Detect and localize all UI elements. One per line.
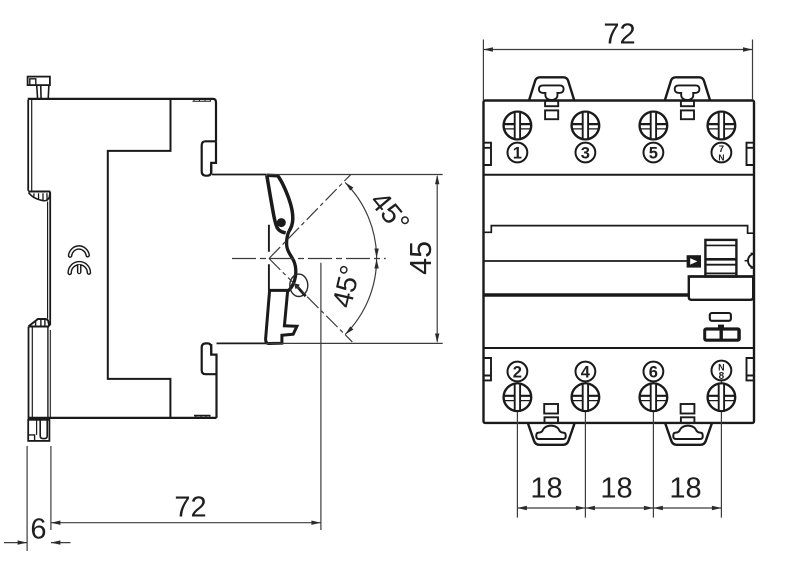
arrowheads 18 at 653 — [644, 506, 654, 510]
svg-text:72: 72 — [174, 492, 206, 524]
pole number 6 — [644, 362, 664, 382]
centerline horizontal — [232, 258, 386, 260]
extension line right of 6-dim / left of 72-dim — [50, 446, 52, 530]
svg-text:N: N — [718, 152, 724, 162]
centerline diagonal upper — [269, 175, 351, 259]
svg-text:45: 45 — [404, 241, 438, 275]
upper-left edge (double line) — [27, 100, 29, 191]
bottom mounting tab right — [665, 424, 712, 445]
screw terminal 1 — [504, 112, 532, 140]
side tab bottom-right — [747, 358, 755, 380]
arrowhead upper arc top — [344, 181, 354, 191]
svg-text:72: 72 — [603, 18, 635, 50]
arrowheads 18 at 517 — [517, 506, 527, 510]
top DIN-clip tab — [28, 77, 50, 99]
pole number 3 — [576, 143, 596, 163]
extension line: top shelf / 45-dim top — [212, 174, 266, 176]
pole number 5 — [644, 143, 664, 163]
mid panel line to arrow box — [484, 260, 687, 262]
lock notch on right edge — [748, 254, 754, 268]
bottom tab slot right (hat) — [673, 426, 702, 439]
dim line 72 — [51, 522, 321, 524]
svg-text:8: 8 — [719, 371, 725, 382]
divider above bottom terminals — [484, 347, 755, 349]
DIN claw hatch step — [28, 192, 50, 201]
arrowhead 45 bottom — [435, 334, 439, 344]
extension line 72-top right — [752, 40, 754, 101]
dim line 72 top — [483, 49, 752, 51]
screw terminal 4 — [572, 383, 600, 411]
extension line: bottom shelf / 45-dim bottom — [217, 342, 267, 344]
dropper line from screw 2 — [516, 381, 518, 517]
dimension dropper lines from bottom screws — [517, 362, 721, 518]
stepped panel line — [484, 226, 755, 234]
top-right edge with notch — [211, 141, 216, 174]
side tab bottom-left — [484, 358, 492, 380]
screw terminal N8 — [708, 383, 736, 411]
bottom-right edge with notch — [211, 344, 216, 418]
rear face below claw — [49, 192, 51, 326]
pole number N 8 — [712, 361, 732, 381]
sliding clip body — [28, 327, 30, 418]
parting-line detail on bottom edge — [194, 416, 211, 418]
arrowhead 72 right — [311, 521, 321, 525]
dim line 6 with outside arrows — [4, 542, 71, 544]
moulded spring symbol (two arcs) — [70, 247, 89, 272]
pole number 1 — [508, 143, 528, 163]
arrowhead upper arc bottom — [374, 249, 378, 259]
sealing rects above bottom-right tab — [681, 404, 695, 414]
toggle knob — [705, 240, 736, 277]
toggle upper handle piece — [267, 175, 293, 233]
pole number 2 — [508, 362, 528, 382]
side tab top-left — [484, 143, 492, 165]
svg-text:5: 5 — [649, 144, 658, 162]
parting-line detail on top edge — [193, 99, 212, 101]
arrowhead top-72 left — [483, 47, 493, 51]
sliding clip ribbed head — [29, 319, 50, 327]
top mounting tab right — [665, 77, 710, 100]
svg-text:3: 3 — [581, 144, 590, 162]
svg-text:18: 18 — [600, 473, 632, 505]
top edge of housing — [28, 99, 216, 141]
toggle lower boot piece — [266, 290, 297, 343]
svg-text:2: 2 — [513, 363, 522, 381]
top mounting tab left — [529, 77, 574, 100]
dropper line from screw N8 — [720, 362, 722, 518]
arrowhead 6 left — [18, 540, 28, 544]
svg-text:45°: 45° — [326, 262, 366, 310]
indicator window — [710, 313, 731, 321]
screw terminal 2 — [504, 383, 532, 411]
arrowheads 18 at 585 — [576, 506, 586, 510]
sealing rects above bottom-left tab — [544, 404, 558, 414]
screw terminal 7N — [708, 112, 736, 140]
top front hook — [202, 141, 216, 175]
screw terminal 5 — [640, 112, 668, 140]
test button block — [703, 325, 741, 342]
lower 45deg arc — [345, 259, 377, 335]
toggle front scoop — [287, 231, 296, 291]
arrowhead 18 at 721 — [712, 506, 722, 510]
pole number 7 N — [712, 143, 732, 163]
svg-text:18: 18 — [669, 473, 701, 505]
dim line 45 vertical — [436, 176, 438, 341]
dropper line from screw 6 — [652, 381, 654, 517]
svg-text:1: 1 — [513, 144, 522, 162]
dropper line from screw 4 — [584, 381, 586, 517]
pole number 4 — [576, 362, 596, 382]
divider below top terminals — [484, 174, 755, 176]
screw terminal 6 — [640, 383, 668, 411]
body outline — [484, 101, 755, 423]
centerline diagonal lower — [269, 259, 352, 342]
svg-text:18: 18 — [530, 473, 562, 505]
sealing rects below left tab — [545, 101, 558, 106]
arrowhead 45 top — [435, 175, 439, 185]
arrowhead 6 right — [51, 540, 61, 544]
sliding clip foot — [28, 420, 49, 441]
side tab top-right — [747, 143, 755, 165]
svg-text:6: 6 — [30, 514, 46, 546]
extension line right of 72-dim (from toggle) — [320, 263, 322, 530]
front face between hooks — [268, 225, 270, 290]
bottom edge of housing — [28, 417, 217, 419]
dim line 18 chain — [517, 507, 721, 509]
sealing rects below right tab — [681, 101, 694, 106]
extension line left of 6-dim — [26, 446, 28, 551]
arrow box (on/off indicator) — [687, 255, 701, 267]
upper 45deg arc — [345, 182, 377, 258]
arrowhead top-72 right — [743, 47, 753, 51]
thick section line — [484, 293, 689, 297]
svg-text:4: 4 — [581, 363, 591, 381]
bottom tab slot left (hat) — [536, 426, 565, 439]
svg-text:6: 6 — [649, 363, 658, 381]
extension line 72-top left — [482, 40, 484, 101]
arrowhead lower arc bottom — [344, 326, 354, 336]
arrowhead lower arc top — [374, 259, 378, 269]
arrowhead 72 left — [51, 521, 61, 525]
press-to-test icon — [290, 274, 308, 296]
bottom mounting tab left — [528, 424, 575, 445]
top tab slot left — [539, 85, 564, 100]
toggle pivot dot — [277, 218, 286, 227]
inner contour of rear housing — [108, 99, 171, 418]
toggle housing — [689, 277, 753, 300]
top tab slot right — [675, 85, 700, 100]
screw terminal 3 — [572, 112, 600, 140]
bottom front hook — [202, 343, 217, 374]
svg-text:45°: 45° — [363, 186, 415, 240]
